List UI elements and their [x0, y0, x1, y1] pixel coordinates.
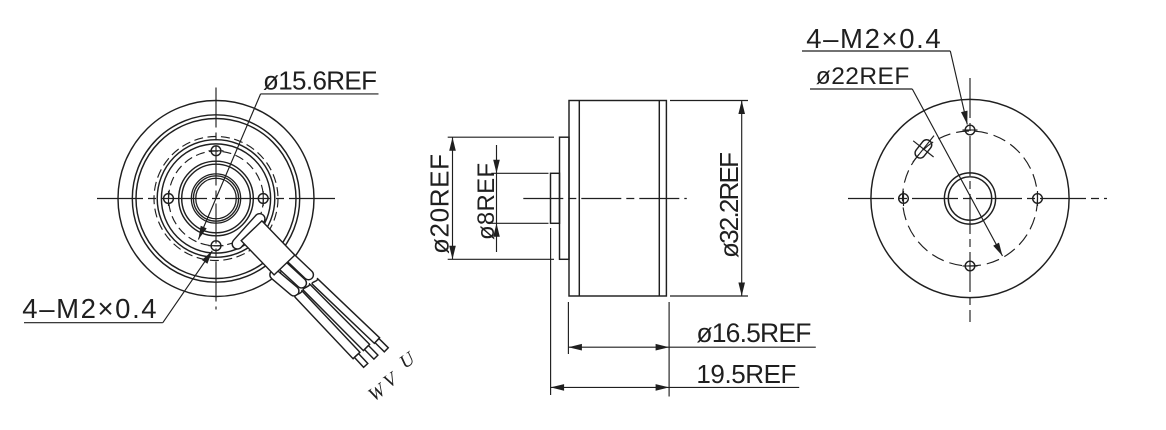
wire W segment	[295, 290, 360, 359]
right view outer housing circle	[871, 99, 1069, 297]
left view bearing circle	[193, 176, 238, 221]
left view wire exit slot	[237, 219, 259, 244]
right view index slot (stadium outline)	[915, 140, 932, 158]
left view M2 screw hole 3	[211, 241, 221, 251]
wire W stub at sleeve	[275, 275, 294, 291]
wire W stripped tip	[354, 354, 367, 368]
wire V stripped tip	[365, 346, 378, 360]
right view M2 screw hole 2	[1033, 194, 1043, 204]
left view M2 screw hole 1	[211, 146, 221, 156]
side view motor body outline	[569, 101, 666, 297]
right view vertical centerline	[969, 78, 971, 322]
side view front boss ø20	[560, 137, 570, 259]
right view horizontal centerline	[848, 198, 1107, 200]
svg-text:ø8REF: ø8REF	[473, 163, 500, 240]
leader line 4-M2x0.4 right	[802, 50, 950, 52]
dimension ø32.2REF	[670, 100, 748, 102]
wire V stub at sleeve	[282, 265, 302, 283]
left view M2 screw hole 2	[258, 194, 268, 204]
dimension ø20REF	[448, 136, 554, 138]
right view shaft bore circle	[948, 177, 991, 220]
left view bolt circle ø15.6 (dashed)	[169, 151, 264, 246]
wire U stripped tip	[375, 339, 388, 352]
dimension 19.5REF	[550, 228, 552, 395]
left view recess circle	[161, 144, 270, 253]
leader line ø15.6REF	[261, 93, 379, 95]
arrowhead ø15.6REF	[198, 226, 206, 240]
left view outer housing circle ø32.2	[118, 101, 314, 297]
svg-text:4–M2×0.4: 4–M2×0.4	[806, 23, 941, 54]
svg-text:ø15.6REF: ø15.6REF	[263, 65, 377, 95]
side view front cover seam line	[578, 101, 580, 297]
wire V segment	[303, 284, 370, 351]
arrowhead 4-M2x0.4 left	[202, 251, 212, 264]
left view shaft bore circle	[196, 178, 237, 219]
right view M2 screw hole 1	[965, 125, 975, 135]
arrowhead ø22REF	[993, 243, 1002, 256]
side view centerline	[523, 198, 687, 200]
right view M2 screw hole 4	[899, 194, 909, 204]
left view horizontal centerline	[97, 198, 338, 200]
right view M2 screw hole 3	[965, 261, 975, 271]
wire sleeve grommet	[241, 221, 295, 275]
left view boss circle	[157, 140, 275, 258]
dimension ø16.5REF	[567, 302, 569, 354]
left view vertical centerline	[215, 88, 217, 310]
svg-text:ø32.2REF: ø32.2REF	[714, 152, 744, 258]
left view bearing boss circle	[191, 174, 240, 223]
dimension ø8REF	[491, 172, 548, 174]
arrowhead 4-M2x0.4 right	[961, 111, 968, 125]
side view rear cover seam line	[658, 101, 660, 297]
svg-text:ø22REF: ø22REF	[816, 63, 910, 90]
right view slot centerlines	[913, 136, 934, 163]
svg-text:19.5REF: 19.5REF	[696, 359, 796, 389]
left view housing step circle	[132, 115, 299, 282]
svg-text:ø16.5REF: ø16.5REF	[696, 318, 811, 348]
wire U segment	[312, 278, 380, 343]
svg-text:4–M2×0.4: 4–M2×0.4	[22, 293, 156, 324]
left view hub outer circle	[179, 161, 254, 236]
wire U stub at sleeve	[289, 257, 308, 275]
svg-text:ø20REF: ø20REF	[425, 154, 455, 254]
left view hub step circle	[182, 164, 251, 233]
left view M2 screw hole 4	[164, 194, 174, 204]
leader line 4-M2x0.4 left	[24, 322, 163, 324]
left view front face circle	[136, 119, 296, 279]
leader line ø22REF	[810, 88, 912, 90]
right view hub outer circle	[944, 173, 995, 224]
side view shaft stub ø8	[551, 173, 560, 223]
right view bolt circle ø22 (dashed)	[903, 131, 1038, 266]
left view dashed circle ø20 boss (hidden)	[154, 137, 278, 261]
